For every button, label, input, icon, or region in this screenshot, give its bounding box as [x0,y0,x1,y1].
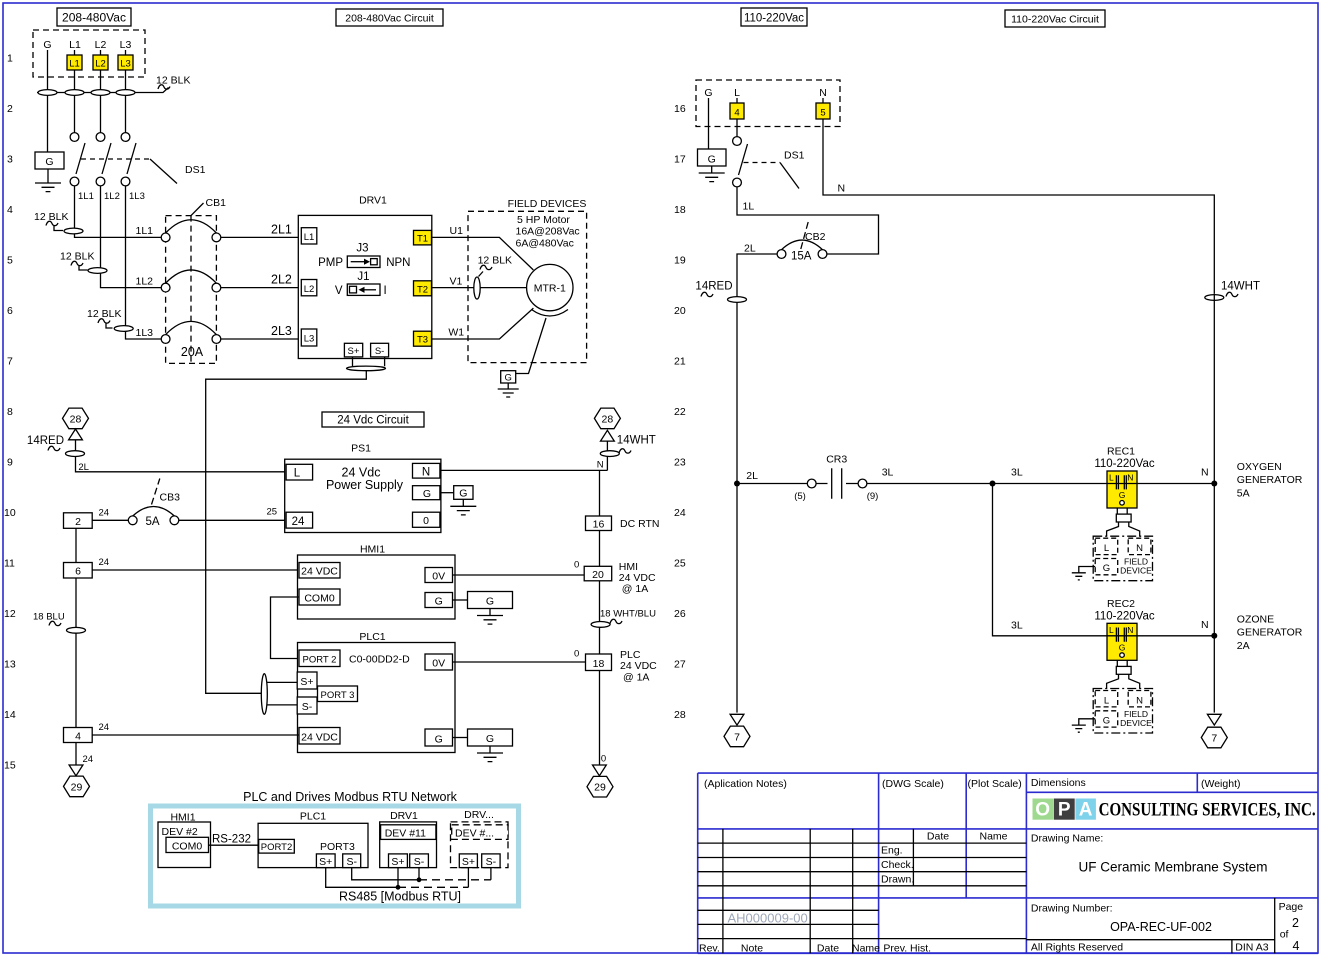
arrow up right [601,430,615,441]
page block [1279,901,1304,953]
svg-text:4: 4 [1293,939,1300,953]
svg-text:5: 5 [820,108,825,119]
svg-text:OZONE: OZONE [1237,614,1274,626]
svg-text:L1: L1 [304,232,315,243]
svg-text:Drawn.: Drawn. [881,873,914,885]
network DRV1 node [380,810,437,868]
svg-text:2: 2 [75,516,81,528]
junction dot rail row26 [1211,633,1217,639]
svg-text:2L3: 2L3 [271,324,292,338]
network DRVx S- [482,854,500,868]
svg-text:Check.: Check. [881,859,914,871]
network HMI1 node [158,812,211,868]
svg-text:(DWG Scale): (DWG Scale) [882,778,944,790]
svg-text:DEVICE: DEVICE [1120,718,1152,728]
cable marker 12 BLK wire V1 [474,255,512,300]
wire G down [47,50,49,152]
svg-text:G: G [704,87,712,99]
review table headers [927,831,1008,843]
svg-text:RS-232: RS-232 [212,834,251,846]
svg-text:14RED: 14RED [695,281,732,293]
svg-text:2: 2 [7,103,13,115]
svg-text:0V: 0V [432,571,445,583]
svg-text:Name: Name [979,831,1007,843]
PLC cable shield [261,674,267,715]
motor ground symbol [498,383,519,397]
svg-text:Date: Date [927,831,949,843]
svg-text:18 BLU: 18 BLU [33,612,65,623]
bus cable ovals [38,90,57,96]
svg-text:DEV #11: DEV #11 [385,828,426,840]
HMI1 terminal COM0 [299,589,340,605]
svg-text:G: G [435,596,443,608]
left rail 2-6-4 [75,528,77,727]
svg-text:18: 18 [593,658,605,670]
svg-text:DEV #2: DEV #2 [162,826,198,838]
right margin row numbers 16-28 [674,103,686,721]
svg-text:DRV1: DRV1 [390,810,418,822]
cable marker 12 BLK wire 1L1 [34,211,83,234]
svg-text:7: 7 [734,731,740,743]
svg-text:J3: J3 [356,243,368,255]
svg-text:Page: Page [1279,901,1304,913]
svg-text:19: 19 [674,255,686,267]
motor MTR-1 [527,264,573,310]
svg-text:MTR-1: MTR-1 [534,283,566,295]
PS1 terminal 24 [286,512,313,528]
svg-text:T1: T1 [417,234,428,245]
CB1 label leader [191,197,226,216]
HMI HMI1 [298,544,456,620]
breaker CB2 [777,219,827,263]
svg-text:12 BLK: 12 BLK [478,255,512,267]
field device 1 ground [1072,567,1095,580]
svg-text:1L1: 1L1 [136,225,154,237]
svg-text:29: 29 [71,781,83,793]
CB1 pole 1 [161,220,221,242]
RS485 bus S+ dashed extension [398,886,468,888]
right rail bottom arrow 7 [1201,714,1227,748]
svg-text:20: 20 [592,569,604,581]
RS485 bus S- line [352,868,419,880]
terminal L1 (yellow) [67,55,82,70]
network DRV1 S+ [389,854,408,868]
svg-text:14: 14 [4,709,16,721]
svg-text:N: N [1136,543,1143,554]
wire COM0 to PORT2 [271,597,300,659]
svg-text:24: 24 [99,722,110,733]
svg-text:1L3: 1L3 [129,191,145,202]
wire G down [708,98,710,149]
svg-text:@ 1A: @ 1A [623,672,649,684]
svg-text:FIELD DEVICES: FIELD DEVICES [508,198,587,210]
right rail down [1213,294,1215,713]
PLC1 terminal G [425,729,453,746]
svg-text:CB1: CB1 [206,197,227,209]
svg-text:12 BLK: 12 BLK [87,308,121,320]
svg-text:S-: S- [375,346,385,357]
wire 2L3 CB1 to DRV1 [221,324,301,339]
wire L to DS1 [736,98,738,137]
svg-text:3L: 3L [1011,620,1023,632]
svg-text:(Plot Scale): (Plot Scale) [968,778,1022,790]
svg-text:CR3: CR3 [826,454,847,466]
svg-text:PMP: PMP [318,257,343,269]
DRV1 terminal T2 (yellow) [414,281,432,296]
svg-text:1: 1 [7,53,13,65]
header labels [704,777,1240,790]
svg-text:28: 28 [674,709,686,721]
receptacle REC2 [1094,598,1155,661]
DRV1 terminal T1 (yellow) [414,230,432,245]
svg-text:4: 4 [734,108,739,119]
svg-text:L3: L3 [304,334,315,345]
wire REC1 to rail N [1137,467,1214,484]
svg-text:4: 4 [7,204,13,216]
svg-text:0V: 0V [432,658,445,670]
wire U1 [432,225,534,270]
svg-text:G: G [1103,563,1110,574]
svg-text:PS1: PS1 [351,443,371,455]
network PLC1 S- [343,854,361,868]
PS1 terminal N [413,463,440,478]
terminal box 4 [64,728,93,743]
svg-text:COM0: COM0 [172,840,202,852]
breaker CB3 [128,479,180,529]
network PLC1 S+ [316,854,335,868]
OPA logo [1033,799,1096,821]
svg-text:OXYGEN: OXYGEN [1237,461,1282,473]
svg-text:15: 15 [4,760,16,772]
drive DRV1 [298,195,432,359]
label box 110-220Vac [741,8,807,26]
PS1 terminal G [413,486,440,500]
svg-text:N: N [838,183,846,195]
svg-text:S-: S- [302,701,313,713]
svg-text:T3: T3 [417,335,428,346]
wire REC2 to rail N [1137,619,1214,636]
svg-text:N: N [1127,473,1133,483]
svg-text:Drawing Name:: Drawing Name: [1031,833,1103,845]
ozone generator label [1237,614,1303,653]
DRV1 terminal S- [371,343,389,357]
svg-text:Date: Date [817,943,839,955]
svg-text:G: G [459,488,467,500]
svg-text:L: L [1104,695,1109,706]
svg-text:2L2: 2L2 [271,273,292,287]
cable marker 12 BLK wire 1L2 [60,251,107,274]
svg-text:T2: T2 [417,284,428,295]
terminal box 2 [64,513,93,529]
CB1 pole 3 [161,321,221,343]
svg-text:U1: U1 [450,225,464,237]
svg-text:G: G [1119,642,1126,652]
DRV1 terminal T3 (yellow) [414,331,432,346]
svg-text:24 VDC: 24 VDC [301,566,338,578]
svg-text:DS1: DS1 [185,164,206,176]
svg-text:1L3: 1L3 [136,327,154,339]
svg-text:of: of [1280,929,1289,941]
left margin row numbers 1-15 [4,53,16,772]
svg-text:PLC1: PLC1 [359,631,385,643]
svg-text:NPN: NPN [386,257,410,269]
label box 208-480Vac [57,8,131,26]
disconnect DS1 right [733,137,805,189]
svg-text:DS1: DS1 [784,150,805,162]
svg-text:G: G [423,488,431,500]
svg-text:CONSULTING SERVICES, INC.: CONSULTING SERVICES, INC. [1099,800,1316,821]
svg-text:L: L [734,87,740,99]
svg-text:RS485 [Modbus RTU]: RS485 [Modbus RTU] [339,890,461,904]
svg-text:OPA-REC-UF-002: OPA-REC-UF-002 [1110,920,1212,934]
RS-232 link [209,834,259,846]
svg-text:AH000009-00: AH000009-00 [728,911,808,926]
cable marker 18 WHT/BLU [591,609,656,628]
svg-text:6: 6 [75,566,81,578]
PLC1 terminal 0V [425,654,453,670]
motor ground lead [516,318,546,374]
HMI load labels [619,561,656,595]
wire 2L2 CB1 to DRV1 [221,273,301,288]
terminal labels G L1 L2 L3 [43,39,131,51]
CB1 trip bar dashed [190,216,192,364]
svg-text:DRV...: DRV... [464,809,494,821]
PLC1 terminal 24 VDC [299,728,340,745]
svg-text:UF Ceramic Membrane System: UF Ceramic Membrane System [1078,860,1267,875]
splice oval 14RED [66,451,85,457]
network DRVx DEV#... [452,825,508,840]
svg-text:6A@480Vac: 6A@480Vac [516,238,574,250]
PLC1 terminal S- [297,697,317,714]
DRV1 shield drops [353,357,385,366]
splice oval 14WHT rail [600,451,619,457]
cable bus leader 12 BLK [37,75,190,93]
wire 2L to left rail [737,243,777,713]
label box 24 Vdc Circuit [322,412,424,427]
svg-text:12: 12 [4,608,16,620]
svg-text:G: G [43,39,51,51]
svg-text:HMI1: HMI1 [360,544,385,556]
drawing number [1031,903,1212,935]
svg-text:L: L [294,468,301,480]
cable marker 18 BLU [33,612,86,634]
svg-text:N: N [1136,695,1143,706]
svg-text:COM0: COM0 [304,593,334,605]
svg-text:PLC and Drives Modbus RTU Netw: PLC and Drives Modbus RTU Network [243,790,457,804]
wire 1L loop to CB2 [737,187,879,254]
svg-text:PLC1: PLC1 [300,811,326,823]
label 14RED [27,435,64,451]
svg-text:2L: 2L [744,243,756,255]
svg-text:Name: Name [852,943,880,955]
CB1 pole 2 [161,270,221,292]
wire 4 to PLC1 24VDC [92,722,299,735]
label 14WHT right [1205,281,1260,301]
motor note text [516,214,580,250]
svg-text:2L: 2L [746,470,758,482]
svg-text:24: 24 [674,507,686,519]
RS485 bus S+ line [326,868,398,888]
svg-text:PORT2: PORT2 [261,842,293,853]
right rail down [599,470,601,765]
jumper J3 [318,243,410,269]
svg-text:1L2: 1L2 [136,275,154,287]
svg-text:W1: W1 [448,327,464,339]
wire PLC 0V to rail [453,649,586,663]
svg-text:S-: S- [346,856,357,868]
svg-text:25: 25 [674,558,686,570]
svg-text:2L: 2L [78,462,89,473]
HMI1 terminal 24 VDC [299,563,340,579]
FIELD DEVICES dashed box [468,198,587,363]
terminal box 6 [64,563,93,579]
svg-text:DEVICE: DEVICE [1120,566,1152,576]
208-480 input terminal dashed box [33,30,145,77]
wire L2 down to DS1 [100,50,102,133]
svg-text:24: 24 [83,754,94,765]
svg-text:G: G [486,596,494,608]
svg-text:S-: S- [486,856,497,868]
svg-text:S+: S+ [319,856,332,868]
svg-text:0: 0 [601,754,606,765]
PLC1 terminal PORT 3 [318,686,358,702]
svg-text:Rev.: Rev. [699,943,720,955]
svg-text:110-220Vac: 110-220Vac [1094,458,1155,470]
wire V1 [432,276,527,288]
DRV1 S+ drop [397,868,399,888]
DRV1 S- drop [418,868,420,880]
motor ground box G [501,371,516,384]
terminal box 16 / DC RTN [586,516,660,531]
DRVx S+ drop [467,868,469,888]
svg-text:G: G [486,733,494,745]
RS485 bus S- dashed extension [419,879,491,881]
ground symbol [47,169,49,176]
svg-text:12 BLK: 12 BLK [156,75,190,87]
junction dot 3L [990,481,996,487]
svg-text:1L: 1L [743,201,755,213]
svg-text:S+: S+ [300,676,313,688]
svg-text:(Aplication Notes): (Aplication Notes) [704,778,787,790]
svg-text:12 BLK: 12 BLK [60,251,94,263]
svg-text:3: 3 [7,154,13,166]
DS1 linkage and label [81,159,206,184]
disconnect DS1 pole 3 [121,133,136,186]
svg-text:DC RTN: DC RTN [620,518,659,530]
svg-text:O: O [1035,800,1050,821]
svg-text:110-220Vac Circuit: 110-220Vac Circuit [1011,14,1099,26]
sheet ref hexagon 28 right [594,408,620,429]
svg-text:110-220Vac: 110-220Vac [1094,610,1155,622]
REC2 plug connector [1107,660,1140,688]
svg-text:A: A [1079,800,1093,821]
svg-text:PORT 2: PORT 2 [303,655,337,666]
svg-text:16A@208Vac: 16A@208Vac [516,226,580,238]
svg-text:L3: L3 [120,59,131,70]
svg-text:G: G [1103,715,1110,726]
svg-text:G: G [505,373,512,384]
svg-text:N: N [819,87,827,99]
network DRV1 S- [410,854,429,868]
label 14RED right [695,281,746,303]
title block blue frame [698,773,1318,953]
PLC load labels [620,649,657,684]
svg-text:G: G [435,734,443,746]
svg-text:GENERATOR: GENERATOR [1237,474,1303,486]
svg-text:Note: Note [741,943,763,955]
svg-text:CB3: CB3 [160,492,181,504]
svg-text:V1: V1 [450,276,463,288]
svg-text:PORT3: PORT3 [320,841,355,853]
DRVx S- drop [490,868,492,880]
junction dot S- bus [417,877,422,882]
network DRVx S+ [459,854,477,868]
svg-text:5A: 5A [1237,488,1250,500]
svg-text:14WHT: 14WHT [617,435,656,447]
terminal 4 (yellow) [730,103,744,119]
svg-text:20: 20 [674,305,686,317]
left rail bottom arrow 29 [64,743,94,797]
svg-text:Power Supply: Power Supply [326,478,404,492]
svg-text:DEV #...: DEV #... [455,828,494,840]
svg-text:DRV1: DRV1 [359,195,387,207]
terminal L3 (yellow) [118,55,133,70]
svg-text:C0-00DD2-D: C0-00DD2-D [349,654,410,666]
svg-text:28: 28 [70,413,82,425]
title block black grid [698,829,1275,953]
wire 1L1 to CB1 [75,186,162,237]
svg-text:26: 26 [674,608,686,620]
svg-text:24 Vdc Circuit: 24 Vdc Circuit [337,415,409,427]
svg-text:V: V [335,285,343,297]
RS485 cable run to PLC [206,371,367,694]
svg-text:0: 0 [574,649,579,660]
svg-text:J1: J1 [357,271,369,283]
label 14WHT [617,435,656,454]
field device 2 ground [1072,719,1095,732]
svg-text:GENERATOR: GENERATOR [1237,627,1303,639]
oxygen generator label [1237,461,1303,500]
relay contact CR3 [794,454,878,503]
svg-text:10: 10 [4,507,16,519]
svg-text:2L1: 2L1 [271,223,292,237]
HMI1 external ground [453,592,513,625]
REC1 plug connector [1107,508,1140,536]
junction dot left rail row23 [734,481,740,487]
svg-text:14RED: 14RED [27,435,64,447]
disconnect DS1 pole 2 [96,133,111,186]
svg-text:Dimensions: Dimensions [1031,777,1086,789]
svg-text:24: 24 [292,516,305,528]
svg-text:24 VDC: 24 VDC [301,732,338,744]
svg-text:7: 7 [7,356,13,368]
wire L1 down to DS1 [74,50,76,133]
svg-text:N: N [1201,619,1209,631]
wire labels 1L1/1L2/1L3 at CB1 [136,225,154,339]
ground terminal box G [35,152,64,169]
svg-text:18 WHT/BLU: 18 WHT/BLU [600,609,656,620]
ground box G right [698,149,727,182]
svg-text:CB2: CB2 [805,231,826,243]
network enclosure (cyan) [151,806,519,906]
wire 2L1 CB1 to DRV1 [221,223,301,238]
jumper J1 [335,271,387,297]
svg-text:29: 29 [594,782,606,794]
svg-text:14WHT: 14WHT [1221,281,1260,293]
DRV1 terminal L1 [301,228,317,244]
svg-text:4: 4 [75,731,81,743]
network PORT2 port [259,839,295,853]
